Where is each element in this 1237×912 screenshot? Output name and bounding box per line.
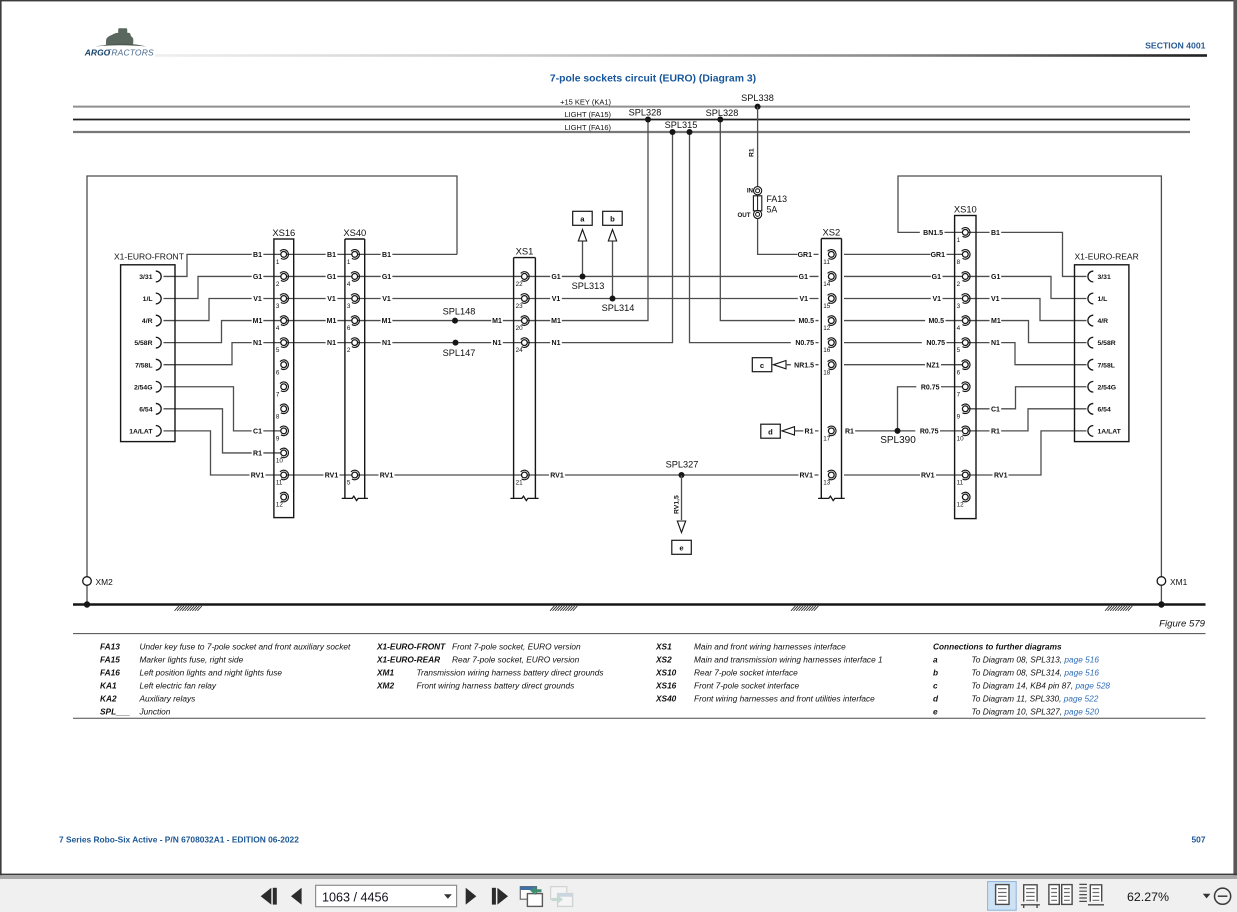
wire N1 XS1 riser to SPL315 [527,132,673,343]
svg-text:Left position lights and night: Left position lights and night lights fu… [140,668,283,678]
svg-text:1/L: 1/L [1098,296,1108,303]
svg-text:Marker lights fuse, right side: Marker lights fuse, right side [140,655,244,665]
svg-text:M1: M1 [551,318,561,325]
svg-text:G1: G1 [327,274,336,281]
svg-text:16: 16 [823,347,831,354]
legend bottom rule [73,717,1206,719]
svg-text:2/54G: 2/54G [134,384,153,391]
junction SPL315 (two splices) [670,129,676,135]
toolbar: continuous view [1021,885,1040,908]
connector XS1 [510,245,538,500]
app window frame edges [0,0,1237,1]
svg-text:G1: G1 [382,274,391,281]
wire M1 XS1 riser to SPL328 [527,120,648,321]
toolbar: zoom out button [1215,888,1231,904]
svg-text:N1: N1 [552,340,561,347]
svg-text:SECTION 4001: SECTION 4001 [1145,41,1206,51]
svg-text:7: 7 [276,391,280,398]
svg-text:XS40: XS40 [655,694,677,704]
svg-text:1: 1 [347,259,351,266]
svg-text:7/58L: 7/58L [1098,362,1115,369]
toolbar background [0,874,1237,876]
wire 1/L to XS16 (G1) [164,276,281,298]
connector XS16 [272,227,295,518]
toolbar: two page continuous view [1079,884,1104,904]
svg-text:XS2: XS2 [823,226,841,237]
svg-text:3: 3 [957,303,961,310]
wire B1 XS16 to XS40 [286,253,352,255]
off-page connector c with arrow [752,358,772,372]
svg-text:RV1: RV1 [550,473,564,480]
svg-text:XS40: XS40 [343,227,366,238]
wire 5/58R to XS16 (M1) [164,321,281,343]
connector XS10 [954,203,977,518]
wire C1 XS10 to 2/54G [968,387,1087,409]
junction SPL148 [452,318,458,324]
svg-text:SPL328: SPL328 [629,108,662,118]
svg-text:507: 507 [1192,834,1206,844]
svg-text:To Diagram 10, SPL327, page 52: To Diagram 10, SPL327, page 520 [972,707,1100,717]
svg-text:XM2: XM2 [376,681,394,691]
svg-text:N0.75: N0.75 [926,340,945,347]
junction SPL147 [453,340,459,346]
svg-text:10: 10 [957,435,965,442]
wire G1 XS10 to 1/L [968,276,1087,298]
svg-text:RV1: RV1 [325,473,339,480]
svg-text:5: 5 [347,480,351,487]
svg-text:17: 17 [823,435,831,442]
svg-text:To Diagram 11, SPL330, page 52: To Diagram 11, SPL330, page 522 [972,694,1099,704]
svg-text:5/58R: 5/58R [1098,340,1116,347]
svg-text:RV1,5: RV1,5 [673,495,680,514]
svg-text:FA13: FA13 [100,642,120,652]
svg-text:N1: N1 [253,340,262,347]
toolbar: two page view [1049,885,1072,905]
svg-text:3/31: 3/31 [1098,274,1111,281]
svg-text:SPL327: SPL327 [666,460,699,470]
wire G1 XS2 to XS10 [844,275,962,277]
svg-text:+15 KEY (KA1): +15 KEY (KA1) [560,97,611,106]
net labels between XS16 and XS40 [326,250,338,259]
svg-text:6: 6 [276,369,280,376]
svg-text:b: b [610,215,615,224]
svg-text:Figure 579: Figure 579 [1159,618,1206,629]
svg-text:23: 23 [516,303,524,310]
svg-text:1A/LAT: 1A/LAT [1098,428,1122,435]
bus LIGHT (FA15) [73,119,1190,121]
svg-text:To Diagram 08, SPL314, page 51: To Diagram 08, SPL314, page 516 [972,668,1100,678]
off-page connector d with arrow [761,424,781,438]
off-page connector a [573,211,593,225]
wire RV1 XS40 to XS1 [357,474,522,476]
svg-text:SPL315: SPL315 [665,120,698,130]
svg-text:C1: C1 [253,428,262,435]
svg-text:Front wiring harness battery d: Front wiring harness battery direct grou… [417,681,575,691]
svg-text:8: 8 [276,413,280,420]
net labels right of XS40 [381,250,393,259]
svg-text:7: 7 [957,391,961,398]
svg-text:1: 1 [957,237,961,244]
svg-text:15: 15 [823,303,831,310]
svg-text:XM2: XM2 [96,577,114,587]
bus +15 KEY (KA1) [73,106,1190,108]
svg-text:M0.5: M0.5 [928,318,944,325]
connector XS40 [342,227,368,501]
svg-text:3/31: 3/31 [139,274,152,281]
net labels left of XS1 [491,316,503,325]
svg-text:G1: G1 [799,274,808,281]
svg-text:3: 3 [347,303,351,310]
svg-text:NZ1: NZ1 [926,362,939,369]
junction SPL338 [755,104,761,110]
svg-text:6: 6 [957,369,961,376]
toolbar: next-view icon (disabled) [551,887,573,907]
wire M0.5 XS2 riser to SPL328 [720,120,818,321]
svg-text:GR1: GR1 [798,252,813,259]
svg-text:2: 2 [276,281,280,288]
svg-text:To Diagram 08, SPL313, page 51: To Diagram 08, SPL313, page 516 [972,655,1100,665]
svg-text:B1: B1 [253,252,262,259]
svg-text:Front 7-pole socket interface: Front 7-pole socket interface [694,681,800,691]
ground point XM2 [83,577,92,586]
svg-text:7-pole sockets circuit (EURO): 7-pole sockets circuit (EURO) (Diagram 3… [550,74,756,85]
wire G1 XS16 to XS40 [286,275,352,277]
wire V1 XS16 to XS40 [286,298,352,300]
logo ArgoTractors [84,28,154,57]
svg-text:X1-EURO-REAR: X1-EURO-REAR [376,655,440,665]
svg-text:N0.75: N0.75 [795,340,814,347]
svg-text:22: 22 [516,281,524,288]
svg-text:10: 10 [276,458,284,465]
svg-text:Front wiring harnesses and fro: Front wiring harnesses and front utiliti… [694,694,875,704]
svg-text:RV1: RV1 [921,473,935,480]
svg-text:XS1: XS1 [655,642,672,652]
svg-text:V1: V1 [932,296,941,303]
label BN1.5 on XM1 riser wire [920,228,945,237]
svg-text:KA1: KA1 [100,681,117,691]
svg-text:11: 11 [823,259,830,266]
svg-text:BN1.5: BN1.5 [923,230,943,237]
svg-text:X1-EURO-FRONT: X1-EURO-FRONT [114,251,184,261]
svg-text:RV1: RV1 [251,473,265,480]
svg-text:LIGHT (FA15): LIGHT (FA15) [564,110,611,119]
wire RV1 XS10 to 1A/LAT [968,431,1087,475]
svg-text:11: 11 [276,480,283,487]
wire N1 XS10 to 7/58L [968,343,1087,365]
toolbar: page number box 1063 / 4456 [316,885,457,906]
connector XS2 [818,226,845,500]
svg-text:C1: C1 [991,406,1000,413]
svg-text:Front 7-pole socket, EURO vers: Front 7-pole socket, EURO version [452,642,581,652]
wire M0.5 XS2 to XS10 [844,320,962,322]
svg-text:Main and front wiring harnesse: Main and front wiring harnesses interfac… [694,642,846,652]
svg-text:M1: M1 [327,318,337,325]
toolbar: single page view (selected) [988,882,1017,911]
off-page connector e [672,540,692,554]
svg-text:Connections to further diagram: Connections to further diagrams [933,642,1062,652]
svg-text:XM1: XM1 [1170,577,1188,587]
svg-text:2: 2 [347,347,351,354]
svg-text:20: 20 [516,325,524,332]
svg-text:d: d [768,428,773,437]
svg-text:V1: V1 [799,296,808,303]
wire V1 XS40 to XS1 [357,298,522,300]
svg-text:c: c [760,361,764,370]
toolbar: next-page button [466,888,477,905]
wire 3/31 to XS16 (B1) [164,254,281,276]
wire: XM1 ground riser / top link to XS10 BN1.5 [898,176,1161,605]
wire V1 XS2 to XS10 [844,298,962,300]
svg-text:1/L: 1/L [143,296,153,303]
svg-text:Rear 7-pole socket, EURO versi: Rear 7-pole socket, EURO version [452,655,580,665]
svg-text:Auxiliary relays: Auxiliary relays [139,694,196,704]
wire M1 XS10 to 5/58R [968,321,1087,343]
junction SPL314 with arrow to b [612,241,614,299]
net labels right of XS1 and left of XS2 [550,272,562,281]
svg-text:G1: G1 [932,274,941,281]
wire 7/58L to XS16 (N1) [164,343,281,365]
wire GR1 XS2 to XS10 [844,253,962,255]
svg-text:9: 9 [276,435,280,442]
wire 6/54 to XS16 (R1) [164,409,281,453]
svg-text:11: 11 [957,480,964,487]
svg-text:1063 / 4456: 1063 / 4456 [322,890,389,904]
svg-text:3: 3 [276,303,280,310]
svg-text:RV1: RV1 [800,473,814,480]
svg-text:V1: V1 [382,296,391,303]
svg-text:9: 9 [957,413,961,420]
wire R1 from SPL338 to fuse FA13 [757,107,759,187]
svg-text:5: 5 [957,347,961,354]
svg-text:RV1: RV1 [380,473,394,480]
wire M1 XS16 to XS40 [286,320,352,322]
wire V1 XS1 to XS2 (SPL314) [527,298,819,300]
wire N1 XS16 to XS40 [286,342,352,344]
ground hatch at x=1105 [1105,606,1132,611]
svg-text:Rear 7-pole socket interface: Rear 7-pole socket interface [694,668,798,678]
svg-text:V1: V1 [253,296,262,303]
svg-text:SPL147: SPL147 [443,348,476,358]
svg-text:Left electric fan relay: Left electric fan relay [140,681,217,691]
svg-text:4: 4 [276,325,280,332]
svg-text:SPL338: SPL338 [741,93,774,103]
svg-text:To Diagram 14, KB4 pin 87, pag: To Diagram 14, KB4 pin 87, page 528 [972,681,1111,691]
bus LIGHT (FA16) [73,131,1190,133]
wire GR1 fuse OUT to XS2 pin 11 [758,219,819,255]
svg-text:SPL314: SPL314 [602,303,635,313]
svg-text:B1: B1 [991,230,1000,237]
svg-text:LIGHT (FA16): LIGHT (FA16) [564,123,611,132]
svg-text:XS10: XS10 [655,668,677,678]
svg-text:R1: R1 [805,428,814,435]
svg-text:R0.75: R0.75 [920,428,939,435]
wire G1 XS40 to XS1 [357,275,522,277]
svg-text:XS16: XS16 [272,227,295,238]
junction SPL390 branch to XS10 pin 7 [898,387,963,431]
svg-text:XS1: XS1 [516,245,534,256]
svg-text:8: 8 [957,259,961,266]
svg-text:X1-EURO-FRONT: X1-EURO-FRONT [376,642,446,652]
svg-text:M1: M1 [253,318,263,325]
wire NZ1 XS2 to XS10 [844,364,962,366]
svg-text:12: 12 [823,325,831,332]
fuse FA13 5A [737,187,787,219]
junction SPL328 (right) [717,117,723,123]
off-page connector b [603,211,623,225]
svg-text:KA2: KA2 [100,694,117,704]
wire B1 XS40 to outer riser [357,253,457,255]
svg-text:R1: R1 [991,428,1000,435]
junction SPL327 with arrow to e [679,472,685,478]
wire RV1 XS2 to XS10 [844,474,962,476]
svg-text:1: 1 [276,259,280,266]
svg-text:SPL390: SPL390 [880,435,916,446]
connector X1-EURO-FRONT [114,251,184,441]
svg-text:SPL148: SPL148 [443,306,476,316]
svg-text:Under key fuse to 7-pole socke: Under key fuse to 7-pole socket and fron… [140,642,351,652]
svg-text:XS10: XS10 [954,203,977,214]
toolbar: back button [291,888,302,905]
svg-text:V1: V1 [552,296,561,303]
svg-text:XS16: XS16 [655,681,677,691]
svg-text:N1: N1 [493,340,502,347]
svg-text:N1: N1 [382,340,391,347]
svg-text:M0.5: M0.5 [798,318,814,325]
wire 2/54G to XS16 (C1) [164,387,281,431]
wire R1 XS10 to 6/54 [968,409,1087,431]
svg-text:1A/LAT: 1A/LAT [129,428,153,435]
svg-text:G1: G1 [991,274,1000,281]
svg-text:SPL313: SPL313 [572,281,605,291]
svg-text:13: 13 [823,480,831,487]
svg-text:B1: B1 [382,252,391,259]
svg-text:7/58L: 7/58L [135,362,152,369]
svg-text:M1: M1 [492,318,502,325]
svg-text:14: 14 [823,281,831,288]
ground point XM1 [1157,577,1166,586]
svg-text:X1-EURO-REAR: X1-EURO-REAR [1075,252,1139,262]
ground bus [73,603,1206,606]
wire RV1 XS16 to XS40 [286,474,352,476]
svg-text:4: 4 [957,325,961,332]
svg-text:XS2: XS2 [655,655,672,665]
svg-text:V1: V1 [327,296,336,303]
svg-text:SPL___: SPL___ [100,707,130,717]
wire V1 XS10 to 4/R [968,299,1087,321]
ground hatch at x=550 [550,606,577,611]
svg-text:Junction: Junction [139,707,171,717]
wire R1/R0.75 XS2 to XS10 (SPL390) [844,430,962,432]
wire M1 XS40 to XS1 (SPL148) [357,320,522,322]
svg-text:18: 18 [823,369,831,376]
svg-text:5A: 5A [767,205,778,215]
toolbar: previous-page button [261,888,272,905]
toolbar: previous-view icon [520,886,542,906]
junction SPL328 (left) [645,117,651,123]
svg-text:6/54: 6/54 [1098,406,1111,413]
wire N0.75 XS2 riser to SPL315 [690,132,819,343]
svg-text:V1: V1 [991,296,1000,303]
wire: XM2 ground riser / top link to XS40 B1 [87,176,457,605]
svg-text:NR1.5: NR1.5 [794,362,814,369]
svg-text:5: 5 [276,347,280,354]
svg-text:12: 12 [276,502,284,509]
svg-text:6: 6 [347,325,351,332]
svg-text:12: 12 [957,502,965,509]
wire N0.75 XS2 to XS10 [844,342,962,344]
svg-text:IN: IN [747,187,754,194]
svg-text:6/54: 6/54 [139,406,152,413]
ground hatch at x=174.5 [175,606,202,611]
svg-text:N1: N1 [327,340,336,347]
ground hatch at x=791 [791,606,818,611]
svg-text:21: 21 [516,480,524,487]
svg-text:a: a [933,655,938,665]
wire 4/R to XS16 (V1) [164,299,281,321]
wire G1 XS1 to XS2 (SPL313) [527,275,819,277]
svg-text:e: e [679,544,683,553]
svg-text:c: c [933,681,938,691]
toolbar: forward button [492,888,496,905]
svg-text:R1: R1 [845,428,854,435]
svg-text:e: e [933,707,938,717]
connector X1-EURO-REAR [1075,252,1139,442]
wire B1 XS10 to 3/31 [968,232,1087,276]
svg-text:GR1: GR1 [931,252,946,259]
svg-text:G1: G1 [253,274,262,281]
svg-text:62.27%: 62.27% [1127,890,1169,904]
svg-text:R1: R1 [749,148,756,157]
wire RV1 XS1 to XS2 (SPL327) [527,474,819,476]
svg-text:4/R: 4/R [1098,318,1109,325]
svg-text:XM1: XM1 [376,668,394,678]
svg-text:Transmission wiring harness ba: Transmission wiring harness battery dire… [417,668,604,678]
legend top rule [73,633,1206,635]
svg-text:5/58R: 5/58R [134,340,152,347]
svg-text:N1: N1 [991,340,1000,347]
svg-text:R1: R1 [253,451,262,458]
svg-text:2/54G: 2/54G [1098,384,1117,391]
svg-text:4/R: 4/R [142,318,153,325]
svg-text:M1: M1 [382,318,392,325]
svg-text:4: 4 [347,281,351,288]
wire 1A/LAT to XS16 (RV1) [164,431,281,475]
wire N1 XS40 to XS1 (SPL147) [357,342,522,344]
svg-text:FA13: FA13 [767,194,788,204]
svg-text:G1: G1 [551,274,560,281]
junction SPL313 with arrow to a [582,241,584,276]
svg-text:b: b [933,668,938,678]
svg-text:FA16: FA16 [100,668,120,678]
svg-text:Main and transmission wiring h: Main and transmission wiring harnesses i… [694,655,883,665]
svg-text:SPL328: SPL328 [706,108,739,118]
svg-text:M1: M1 [991,318,1001,325]
svg-text:2: 2 [957,281,961,288]
svg-text:RV1: RV1 [994,473,1008,480]
svg-text:OUT: OUT [737,212,750,219]
svg-text:24: 24 [516,347,524,354]
svg-text:R0.75: R0.75 [921,384,940,391]
svg-text:7 Series Robo-Six Active - P/N: 7 Series Robo-Six Active - P/N 6708032A1… [59,834,299,844]
svg-text:FA15: FA15 [100,655,120,665]
net labels between X1-EURO-FRONT and XS16 [252,250,264,259]
svg-text:TRACTORS: TRACTORS [106,47,154,57]
svg-text:B1: B1 [327,252,336,259]
